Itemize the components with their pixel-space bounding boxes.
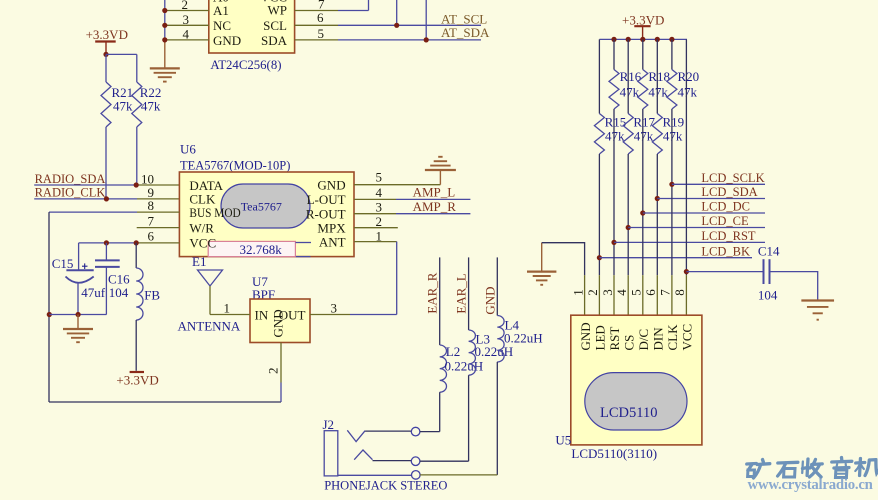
power +3.3VD top-left [86,27,128,54]
svg-text:VCC: VCC [189,236,216,251]
svg-text:2: 2 [585,289,600,296]
LCD pin stubs [585,275,687,315]
svg-text:CLK: CLK [665,324,680,351]
wire line8 VCC [685,39,687,275]
svg-text:www.crystalradio.cn: www.crystalradio.cn [748,477,873,493]
resistor R20 [667,39,699,184]
svg-text:GND: GND [317,178,345,193]
wire tip to L2 [420,431,440,433]
svg-text:47k: 47k [648,84,668,99]
net label AT_SCL [441,11,487,26]
label ANTENNA [178,318,241,333]
svg-text:E1: E1 [192,254,206,269]
svg-text:7: 7 [658,289,673,296]
label LCD5110(3110) [571,446,657,461]
svg-text:LCD5110(3110): LCD5110(3110) [571,446,657,461]
svg-text:4: 4 [614,289,629,296]
net label AMP_L [413,185,456,200]
net label AMP_R [413,199,457,214]
wire pin8 BUSMOD [49,211,179,213]
net label LCD_SDA [701,185,757,199]
wire RADIO_CLK [34,198,179,200]
node pin3 junction [162,23,167,28]
node R22/SDA [134,182,139,187]
svg-text:AMP_R: AMP_R [413,199,457,214]
svg-text:47k: 47k [678,84,698,99]
svg-text:DIN: DIN [651,327,666,351]
svg-text:RADIO_CLK: RADIO_CLK [35,185,106,199]
resistor R18 [638,39,670,213]
capacitor C15 electrolytic [52,243,106,315]
svg-text:5: 5 [376,169,383,184]
node C15 bottom [76,312,81,317]
net label EAR_R [425,272,440,314]
svg-text:5: 5 [318,26,325,41]
svg-text:A1: A1 [213,3,229,18]
node bus line7 [669,37,674,42]
resistor R21 [101,82,133,199]
wire pin7 WP up [295,0,369,11]
wire vertical to ground at left of U8 [164,0,166,68]
wire net LCD_CE [628,227,765,229]
svg-text:W/R: W/R [189,220,214,235]
wire line3 to LCD [613,242,615,275]
node caps ground branch [47,312,52,317]
AT24C256 pin names [213,0,288,48]
wire pin7 W/R stub [137,227,180,229]
svg-text:LCD_SCLK: LCD_SCLK [701,171,764,185]
svg-text:SCL: SCL [263,18,287,33]
svg-text:0.22uH: 0.22uH [504,330,543,345]
wire line5 to LCD [642,213,644,275]
svg-text:47k: 47k [663,129,683,144]
svg-text:0.22uH: 0.22uH [475,344,514,359]
svg-text:2: 2 [376,214,383,229]
svg-text:LCD_CE: LCD_CE [701,214,749,228]
svg-text:GND: GND [213,33,241,48]
svg-text:R19: R19 [663,115,685,130]
net label EAR_L [454,273,469,314]
U6 left pin numbers [141,172,155,244]
node bus line4 [626,37,631,42]
wire pin3 stub [165,24,209,26]
svg-text:3: 3 [331,300,338,315]
capacitor C16 [95,243,130,315]
svg-text:0.22uH: 0.22uH [445,359,484,374]
svg-text:TEA5767(MOD-10P): TEA5767(MOD-10P) [180,158,290,172]
wire line2 to LCD [598,258,600,276]
net label LCD_SCLK [701,171,764,185]
svg-text:ANT: ANT [319,234,346,249]
display U5 LCD5110 body [571,315,702,445]
wire pin1 ANT down to BPF [354,242,397,315]
svg-text:IN: IN [255,307,269,322]
wire line7 to LCD [671,184,673,275]
svg-text:1: 1 [224,300,231,315]
svg-text:7: 7 [148,213,155,228]
U7 pin names IN OUT GND [255,307,306,337]
U6 right pin numbers [376,169,383,243]
node AT_SDA junction [424,37,429,42]
svg-text:D/C: D/C [636,329,651,351]
net label LCD_RST [701,229,756,243]
wire pin2 MPX stub [354,227,398,229]
wire line4 to LCD [627,228,629,276]
wire RADIO_SDA [34,184,179,186]
svg-text:6: 6 [148,229,155,244]
svg-text:BUS MOD: BUS MOD [189,205,240,220]
chip U8 AT24C256 [209,0,295,53]
svg-text:R17: R17 [633,115,655,130]
node R21/CLK [104,196,109,201]
node C14 junction [684,269,689,274]
label PHONEJACK STEREO [324,478,447,492]
net label RADIO_CLK [35,185,106,199]
resistor R15 [594,39,626,257]
U6 grey module ellipse Tea5767 [221,184,310,228]
svg-text:R15: R15 [605,115,627,130]
node C16 top [104,240,109,245]
svg-text:47uf: 47uf [81,285,106,300]
U6 right pin names [306,178,346,250]
node LCD_BK junction [597,255,602,260]
svg-text:+3.3VD: +3.3VD [86,27,128,42]
designator U5 [555,433,571,448]
svg-text:5: 5 [629,289,644,296]
J2 tip contact [347,430,411,441]
svg-text:4: 4 [376,185,383,200]
svg-text:GND: GND [578,322,593,350]
wire pin3 R-OUT [354,213,470,215]
net label RADIO_SDA [35,172,106,186]
resistor R22 [132,82,162,185]
wire caps ground branch [49,314,106,316]
svg-text:MPX: MPX [317,221,346,236]
svg-text:1: 1 [570,289,585,296]
svg-text:ANTENNA: ANTENNA [178,318,241,333]
svg-text:AMP_L: AMP_L [413,185,456,200]
wire pin4 stub [165,39,209,41]
wire 3.3V to R21 R22 tops [106,54,137,82]
wire line6 to LCD [656,199,658,276]
label AT24C256(8) [210,58,281,72]
svg-text:U5: U5 [555,433,571,448]
J2 sleeve wire [338,474,412,476]
svg-text:LCD_DC: LCD_DC [701,200,750,214]
resistor R17 [623,39,655,227]
label BPF [252,287,275,302]
svg-text:LED: LED [593,325,608,350]
svg-text:AT_SDA: AT_SDA [441,25,490,40]
svg-text:47k: 47k [113,99,133,114]
node LCD_SCLK junction [669,182,674,187]
svg-text:WP: WP [268,3,288,18]
node bus line6 [655,37,660,42]
antenna E1 [192,254,223,315]
power +3.3VD LCD bus [622,13,664,40]
svg-text:6: 6 [317,10,324,25]
svg-text:104: 104 [758,288,778,303]
svg-text:47k: 47k [605,129,625,144]
node LCD_CE junction [626,225,631,230]
svg-text:C14: C14 [758,244,780,259]
inductor L3 [469,330,514,461]
svg-text:LCD_BK: LCD_BK [701,244,750,258]
U5 grey module LCD5110 [585,373,687,430]
svg-text:3: 3 [600,289,615,296]
wire ground bus bottom to BPF pin2 [49,401,281,403]
svg-text:U6: U6 [180,142,196,157]
wire net LCD_RST [614,241,765,243]
wire pin6 VCC [79,242,180,244]
designator U6 [180,142,196,157]
wire C14 to ground [770,272,818,301]
svg-text:32.768k: 32.768k [240,242,283,257]
svg-text:NC: NC [213,18,231,33]
wire pin2 stub [165,10,209,12]
svg-text:DATA: DATA [189,178,223,193]
watermark url [748,477,873,493]
svg-text:L-OUT: L-OUT [307,192,346,207]
wire pin4 L-OUT [354,198,470,200]
label TEA5767(MOD-10P) [180,158,290,172]
svg-text:GND: GND [271,309,286,337]
svg-text:C15: C15 [52,256,74,271]
svg-text:AT24C256(8): AT24C256(8) [210,58,281,72]
crystal 32.768k box [208,241,311,256]
svg-text:PHONEJACK STEREO: PHONEJACK STEREO [324,478,447,492]
op-amp U6 TEA5767 body [179,172,354,257]
wire EAR_R vertical [439,257,441,345]
svg-text:LCD_RST: LCD_RST [701,229,756,243]
wire ring to L3 [420,460,469,462]
AT24C256 pin numbers [182,0,326,42]
svg-text:EAR_L: EAR_L [454,273,469,314]
wire to C14 [686,271,763,273]
net label GND phones [482,286,497,314]
wire net LCD_SCLK [672,183,765,185]
svg-text:8: 8 [672,289,687,296]
inductor FB ferrite bead [136,243,160,371]
J2 ring terminal circle [411,457,420,466]
node LCD_RST junction [611,240,616,245]
svg-text:CS: CS [621,335,636,351]
capacitor C14 [758,244,780,303]
svg-text:RADIO_SDA: RADIO_SDA [35,172,106,186]
svg-text:2: 2 [266,368,281,375]
ground right of C14 [801,301,834,320]
connector J2 phonejack body [324,431,338,476]
svg-text:FB: FB [144,287,160,302]
designator J2 [323,417,335,432]
svg-text:3: 3 [183,12,190,27]
svg-text:RST: RST [607,327,622,351]
wire phone GND vertical [496,257,498,315]
node bus line5 [640,37,645,42]
LCD pin numbers 1-8 [570,289,687,296]
wire EAR_L vertical [468,257,470,330]
wire U7 pin1 from antenna [210,300,250,315]
wire U7 pin3 to ANT net [310,300,397,315]
resistor R19 [652,39,684,198]
wire pin5 SDA [295,0,481,40]
inductor L2 [440,344,483,432]
svg-text:J2: J2 [323,417,335,432]
wire pin5 GND right [354,170,440,185]
svg-text:8: 8 [148,198,155,213]
watermark logo text [746,458,878,479]
inductor L4 [497,316,542,475]
svg-text:47k: 47k [141,99,161,114]
node pin4 junction [162,37,167,42]
ground below C15 [63,315,93,343]
node AT_SCL junction [394,23,399,28]
J2 tip terminal circle [411,427,420,436]
U6 left pin names [189,178,240,251]
wire net LCD_SDA [657,198,765,200]
wire ground bus left vertical [48,212,50,402]
node LCD_DC junction [640,210,645,215]
wire net LCD_BK [599,257,752,259]
wire 3.3V bus [599,38,687,40]
svg-text:R-OUT: R-OUT [306,207,346,222]
node bus line3 [611,37,616,42]
wire U7 pin2 down [266,343,282,403]
svg-text:47k: 47k [634,129,654,144]
LCD pin names [578,322,695,350]
svg-text:47k: 47k [620,84,640,99]
svg-text:LCD_SDA: LCD_SDA [701,185,757,199]
designator U7 [252,274,268,289]
wire net LCD_DC [643,212,765,214]
svg-text:3: 3 [376,200,383,215]
filter U7 BPF body [250,299,310,343]
net label LCD_CE [701,214,749,228]
wire LCD pin1 to ground [542,243,585,276]
node 3.3V R21/R22 junction [103,52,108,57]
net label LCD_DC [701,200,750,214]
svg-text:R20: R20 [678,69,700,84]
wire pin6 SCL [295,0,481,25]
node pin2 junction [162,8,167,13]
svg-text:EAR_R: EAR_R [425,272,440,314]
node FB top [134,240,139,245]
ground near LCD pin1 [527,243,556,285]
svg-text:L2: L2 [446,344,460,359]
node LCD_SDA junction [655,196,660,201]
svg-text:SDA: SDA [261,33,288,48]
J2 sleeve terminal circle [412,471,421,480]
svg-text:Tea5767: Tea5767 [241,200,282,214]
svg-text:6: 6 [643,289,658,296]
power +3.3VD below FB [116,372,158,387]
ground below U8 [150,68,180,81]
wire sleeve to L4 [420,474,497,476]
svg-text:LCD5110: LCD5110 [600,405,657,421]
J2 ring contact [354,450,411,461]
ground inverted above pin5 [425,157,456,170]
svg-text:104: 104 [109,285,129,300]
svg-text:VCC: VCC [680,324,695,351]
svg-text:GND: GND [482,286,497,314]
net label AT_SDA [441,25,490,40]
net label LCD_BK [701,244,750,258]
svg-text:+3.3VD: +3.3VD [116,372,158,387]
resistor R16 [609,39,642,242]
